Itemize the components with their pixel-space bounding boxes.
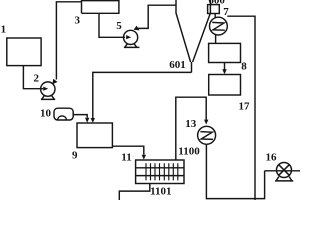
svg-text:1100: 1100 <box>178 146 200 158</box>
svg-text:11: 11 <box>121 152 131 164</box>
svg-text:13: 13 <box>185 118 197 130</box>
svg-text:601: 601 <box>169 59 186 71</box>
svg-text:3: 3 <box>75 14 81 26</box>
svg-text:600: 600 <box>208 0 225 6</box>
svg-text:8: 8 <box>241 61 247 73</box>
svg-text:9: 9 <box>72 150 78 162</box>
svg-text:17: 17 <box>239 101 251 113</box>
svg-text:7: 7 <box>223 6 229 18</box>
svg-text:16: 16 <box>266 152 278 164</box>
svg-text:10: 10 <box>40 108 52 120</box>
svg-text:1101: 1101 <box>150 185 171 197</box>
svg-text:5: 5 <box>116 20 122 32</box>
svg-text:1: 1 <box>1 24 7 36</box>
svg-text:2: 2 <box>34 73 40 85</box>
